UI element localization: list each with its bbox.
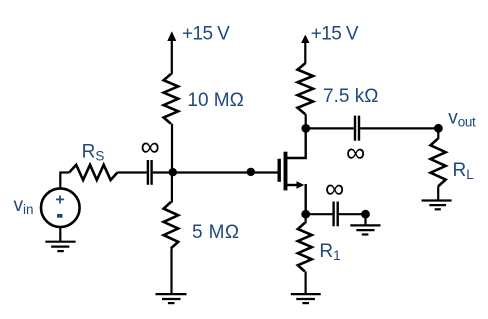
wire gate node to 5M [171,173,173,203]
wire Vin top to RS [60,173,69,189]
resistor R1bias 10M [164,74,179,124]
wire 5M to ground [170,248,172,294]
wire Vin bottom to ground [59,227,61,242]
wire dot to ground [364,214,366,225]
wire R1 to ground [305,271,307,294]
wire RS to C1 [118,171,147,173]
svg-text:5 MΩ: 5 MΩ [192,222,239,243]
svg-text:∞: ∞ [325,174,344,204]
svg-text:+15 V: +15 V [311,24,359,45]
wire RL to ground [437,186,439,200]
capacitor C2 (output coupling) [355,116,359,141]
svg-text:∞: ∞ [346,138,365,168]
node vout [434,124,443,133]
resistor RD 7.5k [298,63,314,114]
wire 7.5k to drain node [305,114,307,128]
wire source to C3 [306,213,333,215]
ground (C3) [350,225,380,234]
wire drain to C2 [306,127,354,129]
node source [301,210,310,219]
node drain [301,124,310,133]
capacitor C1 (input coupling) [148,160,152,185]
capacitor C3 (bypass) [334,202,338,227]
svg-text:+: + [55,192,64,209]
supply arrow +15V right [301,35,309,64]
resistor R1 source [298,223,312,272]
ground (Vin) [45,242,75,251]
svg-text:∞: ∞ [141,132,160,162]
resistor RL [431,139,446,187]
node gate junction [169,168,177,176]
svg-text:7.5 kΩ: 7.5 kΩ [323,86,378,107]
svg-text:+15 V: +15 V [182,24,230,45]
wire C1 to gate node [153,171,278,173]
wire vout to RL [437,128,439,139]
wire C3 to ground dot [339,213,366,215]
svg-text:10 MΩ: 10 MΩ [187,90,243,111]
wire C2 to vout node [360,127,438,129]
node gate dot [247,168,255,176]
voltage source Vin [41,188,80,227]
transistor M1 NMOS [279,128,306,214]
wire source node to R1 [305,214,307,223]
node C3 ground [361,210,370,219]
supply arrow +15V left [167,31,176,74]
ground (5M) [156,294,187,303]
resistor RS [69,165,117,180]
resistor R2bias 5M [164,202,179,248]
ground (R1) [291,294,321,303]
ground (RL) [422,201,452,210]
wire 10M to gate node [171,124,173,173]
